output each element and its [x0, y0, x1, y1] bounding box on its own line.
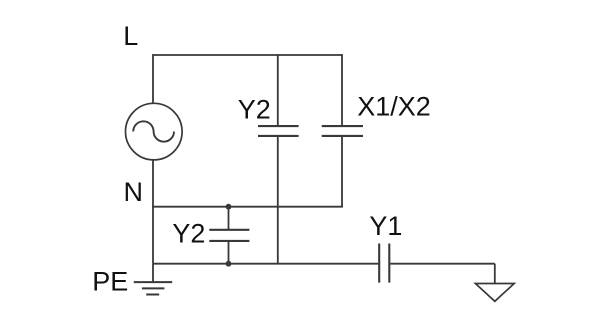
wire Y2b top lead	[228, 207, 230, 230]
svg-text:N: N	[124, 177, 144, 207]
wire PE rail right	[390, 263, 495, 265]
wire X cap top lead	[341, 54, 343, 126]
junction node N-C3	[226, 204, 232, 210]
wire L top rail	[153, 54, 342, 56]
capacitor C3 Y2 (N-PE)	[209, 230, 249, 241]
wire X cap bottom lead	[341, 136, 343, 207]
svg-text:Y1: Y1	[369, 211, 402, 241]
junction node PE-C3	[226, 261, 232, 267]
ac source V1	[126, 103, 183, 160]
wire Y2b bottom lead	[228, 241, 230, 264]
svg-text:L: L	[123, 21, 138, 51]
wire source bottom lead	[152, 160, 154, 207]
earth ground (chassis)	[475, 284, 514, 302]
wire PE rail left	[153, 263, 378, 265]
capacitor C4 Y1 (PE-earth)	[379, 244, 389, 283]
wire N-PE bond	[152, 207, 154, 264]
wire earth drop	[494, 264, 496, 284]
svg-text:Y2: Y2	[238, 94, 271, 124]
wire N rail	[152, 206, 343, 208]
wire source top lead	[152, 54, 154, 104]
capacitor C1 Y2 (L-PE)	[258, 126, 299, 136]
svg-text:PE: PE	[92, 267, 128, 297]
wire Y2a top lead	[277, 55, 279, 126]
capacitor C2 X1/X2 (L-N)	[322, 126, 363, 136]
svg-text:X1/X2: X1/X2	[357, 92, 431, 122]
wire Y2a bottom lead	[277, 136, 279, 264]
svg-text:Y2: Y2	[172, 219, 205, 249]
ground PE symbol	[134, 264, 172, 295]
